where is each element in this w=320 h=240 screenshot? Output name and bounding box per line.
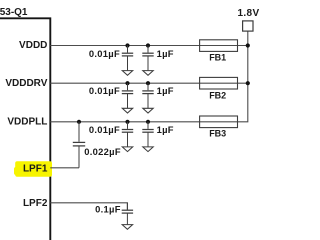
svg-text:1µF: 1µF: [157, 124, 174, 135]
wire FB3 to 1.8V rail corner: [238, 31, 248, 121]
ground for C1: [122, 56, 132, 75]
capacitor C6 1uF row3: [142, 122, 153, 132]
junction dot rail at FB1: [246, 43, 250, 47]
svg-text:0.01µF: 0.01µF: [89, 124, 120, 135]
capacitor C2 1uF row1: [142, 46, 153, 56]
ground for C3: [122, 94, 132, 113]
capacitor C7 0.022uF (VDDPLL to LPF1): [73, 122, 85, 168]
svg-text:FB3: FB3: [209, 129, 226, 139]
svg-text:LPF2: LPF2: [23, 198, 48, 209]
capacitor C5 0.01uF row3: [122, 122, 133, 132]
junction dot row1 col B: [146, 43, 150, 47]
highlight on LPF1 pin: [14, 161, 52, 177]
ground for C6: [143, 132, 153, 151]
wire VDDD pin to FB1: [50, 45, 248, 47]
ground for C2: [143, 56, 153, 75]
wire LPF1 pin to 0.022uF: [50, 167, 79, 169]
junction dot row2 col A: [125, 81, 129, 85]
ground for C4: [143, 94, 153, 113]
svg-text:0.01µF: 0.01µF: [89, 85, 120, 96]
wire VDDPLL pin to FB3: [50, 121, 237, 123]
junction dot row3 col A: [125, 120, 129, 124]
svg-text:0.01µF: 0.01µF: [89, 48, 120, 59]
svg-text:LPF1: LPF1: [23, 163, 48, 174]
capacitor C3 0.01uF row2: [122, 83, 133, 93]
wire LPF2 pin to 0.1uF corner: [50, 203, 127, 210]
svg-text:1µF: 1µF: [157, 48, 174, 59]
svg-text:VDDPLL: VDDPLL: [7, 117, 47, 128]
svg-text:53-Q1: 53-Q1: [0, 7, 28, 18]
svg-text:VDDD: VDDD: [19, 40, 47, 51]
svg-text:VDDDRV: VDDDRV: [5, 78, 47, 89]
junction dot row2 col B: [146, 81, 150, 85]
ferrite bead FB3: [200, 116, 238, 128]
ferrite bead FB2: [200, 77, 238, 89]
svg-text:1µF: 1µF: [157, 85, 174, 96]
IC boundary (top and right edges): [0, 18, 50, 240]
capacitor C4 1uF row2: [142, 83, 153, 93]
ground for C8: [122, 213, 132, 229]
1.8V supply symbol: [238, 8, 260, 31]
capacitor C1 0.01uF row1: [122, 46, 133, 56]
wire VDDDRV pin to FB2: [50, 82, 248, 84]
capacitor C8 0.1uF (LPF2): [122, 203, 133, 213]
junction dot row1 col A: [125, 43, 129, 47]
junction dot rail at FB2: [246, 81, 250, 85]
junction dot row3 branch: [77, 120, 81, 124]
junction dot row3 col B: [146, 120, 150, 124]
svg-text:FB2: FB2: [209, 90, 226, 100]
svg-text:FB1: FB1: [209, 52, 226, 62]
svg-text:0.022µF: 0.022µF: [84, 146, 121, 157]
ground for C5: [122, 132, 132, 151]
svg-text:0.1µF: 0.1µF: [95, 204, 121, 215]
ferrite bead FB1: [200, 40, 238, 52]
svg-text:1.8V: 1.8V: [238, 8, 260, 19]
